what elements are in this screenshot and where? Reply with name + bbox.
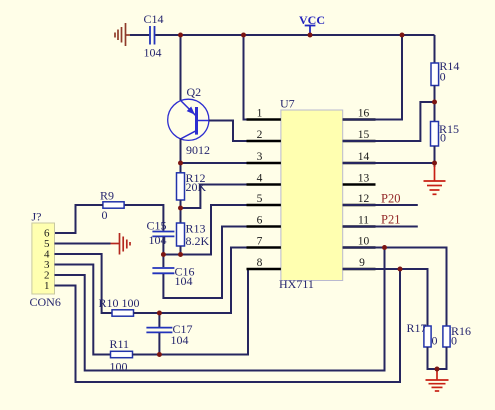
wire pin 10 to R16 bbox=[343, 248, 447, 327]
wire pin 5 bbox=[163, 205, 281, 255]
junction collector/R12/pin3 bbox=[178, 161, 183, 166]
junction R10/C17 bbox=[157, 311, 162, 316]
svg-text:104: 104 bbox=[175, 274, 193, 288]
wire R17 bottom to gnd node bbox=[428, 347, 438, 369]
wire C16 bottom to pin 6 bbox=[163, 227, 281, 299]
svg-text:Q2: Q2 bbox=[187, 85, 202, 99]
svg-text:8: 8 bbox=[257, 257, 263, 269]
junction R13/node/pin5 bbox=[178, 252, 183, 257]
svg-text:15: 15 bbox=[358, 129, 370, 141]
ground GND mid-left bbox=[111, 233, 131, 255]
wire pin 4 bbox=[181, 185, 281, 209]
wire R14 to node bbox=[434, 86, 436, 122]
svg-text:U7: U7 bbox=[280, 97, 295, 111]
connector J? bbox=[32, 223, 55, 294]
junction VCC tap bbox=[308, 33, 313, 38]
pin stubs right bbox=[343, 120, 376, 270]
transistor Q2 bbox=[168, 99, 209, 140]
pin stubs left bbox=[247, 120, 281, 270]
resistor R15 bbox=[431, 122, 439, 147]
resistor R17 bbox=[424, 326, 431, 347]
wire pin 15 to R14/R15 node bbox=[343, 102, 435, 141]
svg-text:R17: R17 bbox=[407, 321, 427, 335]
wire R16 bottom to gnd node bbox=[437, 347, 447, 369]
resistor R14 bbox=[431, 63, 439, 86]
wire conn pin 5 to ground bbox=[55, 243, 111, 245]
wire R13 bottom bbox=[180, 246, 182, 255]
svg-text:104: 104 bbox=[171, 333, 189, 347]
net wire P20 bbox=[343, 204, 418, 206]
wire R9 to C15 bbox=[124, 205, 163, 231]
svg-text:HX711: HX711 bbox=[279, 277, 314, 291]
wire C15 bottom to node bbox=[162, 237, 164, 255]
ground GND top-right bbox=[424, 165, 446, 194]
capacitor C15 bbox=[152, 232, 174, 237]
svg-text:J?: J? bbox=[32, 210, 42, 224]
pin numbers left bbox=[257, 108, 263, 270]
wire R15 to pin14 node bbox=[434, 146, 436, 167]
resistor R13 bbox=[177, 223, 185, 246]
svg-text:16: 16 bbox=[358, 108, 370, 120]
svg-text:12: 12 bbox=[358, 193, 370, 205]
capacitor C17 bbox=[158, 313, 160, 327]
wire pin 3 bbox=[181, 162, 281, 164]
capacitor C16 bbox=[152, 268, 174, 273]
resistor R9 bbox=[103, 202, 124, 208]
junction R14/R15/pin15 bbox=[432, 100, 437, 105]
junction rail/pin1 bbox=[241, 33, 246, 38]
VCC power symbol bbox=[305, 26, 316, 36]
svg-text:8.2K: 8.2K bbox=[186, 234, 210, 248]
junction R11/C17 bbox=[157, 352, 162, 357]
wire pin 9 to R17 bbox=[343, 269, 428, 326]
wire conn pin 4 to R10 bbox=[55, 254, 113, 313]
svg-text:C15: C15 bbox=[147, 219, 167, 233]
ground GND top-left bbox=[115, 23, 131, 46]
wire conn pin 1 to pin 9 net bbox=[55, 269, 401, 382]
svg-text:0: 0 bbox=[432, 334, 438, 348]
resistor R16 bbox=[443, 326, 450, 347]
svg-text:5: 5 bbox=[257, 193, 263, 205]
pin numbers right bbox=[358, 108, 370, 270]
svg-text:104: 104 bbox=[144, 46, 162, 60]
net wire P21 bbox=[343, 226, 418, 228]
svg-text:C14: C14 bbox=[144, 12, 164, 26]
wire R12 bottom to node bbox=[180, 200, 182, 223]
wire C17 bottom bbox=[158, 333, 160, 355]
svg-text:1: 1 bbox=[257, 108, 263, 120]
junction rail/pin16 bbox=[400, 33, 405, 38]
svg-text:0: 0 bbox=[440, 70, 446, 84]
wire pin 16 to rail bbox=[343, 35, 402, 120]
svg-text:11: 11 bbox=[358, 215, 369, 227]
wire rail to R14 bbox=[434, 35, 436, 63]
wire conn pin 2 to pin 10 net bbox=[55, 248, 385, 371]
capacitor C14 bbox=[150, 26, 155, 45]
svg-text:CON6: CON6 bbox=[30, 295, 61, 309]
svg-text:R10 100: R10 100 bbox=[99, 296, 140, 310]
wire Q2 base to pin 2 bbox=[209, 121, 281, 142]
svg-text:0: 0 bbox=[440, 131, 446, 145]
IC U7 body bbox=[281, 110, 343, 281]
ground GND bottom-right bbox=[426, 369, 449, 391]
wire emitter drop to Q2 bbox=[180, 35, 182, 100]
junction R16/R17/gnd bbox=[435, 367, 440, 372]
svg-text:P20: P20 bbox=[381, 192, 400, 206]
svg-text:3: 3 bbox=[257, 151, 263, 163]
wire conn pin 3 to R11 bbox=[55, 265, 111, 355]
resistor R12 bbox=[177, 173, 185, 200]
wire VCC rail main bbox=[155, 34, 434, 36]
svg-text:13: 13 bbox=[358, 173, 370, 185]
junction R12/R13/pin4 bbox=[178, 206, 183, 211]
wire R11 to pin 8 bbox=[133, 269, 281, 355]
svg-text:0: 0 bbox=[102, 208, 108, 222]
svg-text:P21: P21 bbox=[381, 213, 400, 227]
junction pin10 branch bbox=[382, 245, 387, 250]
wire R10 to pin 7 bbox=[134, 248, 281, 314]
svg-text:6: 6 bbox=[257, 215, 263, 227]
svg-text:4: 4 bbox=[257, 173, 263, 185]
wire Q2 collector to node bbox=[180, 139, 182, 173]
wire R9 left to conn pin6 bbox=[55, 205, 103, 233]
svg-text:2: 2 bbox=[257, 129, 263, 141]
svg-text:20K: 20K bbox=[186, 180, 207, 194]
svg-text:9: 9 bbox=[359, 257, 365, 269]
svg-text:9012: 9012 bbox=[186, 143, 210, 157]
svg-text:7: 7 bbox=[257, 236, 263, 248]
wire node to C16 bbox=[162, 255, 164, 268]
resistor R10 bbox=[112, 310, 134, 316]
svg-text:VCC: VCC bbox=[299, 13, 325, 27]
junction pin9 branch bbox=[398, 267, 403, 272]
svg-text:R9: R9 bbox=[100, 189, 114, 203]
svg-text:0: 0 bbox=[451, 334, 457, 348]
junction C15/node bbox=[161, 252, 166, 257]
resistor R11 bbox=[111, 351, 133, 357]
junction C14/rail/Q2 bbox=[178, 33, 183, 38]
svg-text:R11: R11 bbox=[110, 337, 130, 351]
svg-text:10: 10 bbox=[358, 236, 370, 248]
wire rail to pin 1 bbox=[244, 35, 281, 120]
svg-text:1: 1 bbox=[44, 280, 50, 292]
svg-text:14: 14 bbox=[358, 151, 370, 163]
wire VCC rail left segment bbox=[130, 34, 149, 36]
junction R15/pin14/gnd bbox=[432, 161, 437, 166]
wire pin 14 bbox=[343, 162, 435, 164]
